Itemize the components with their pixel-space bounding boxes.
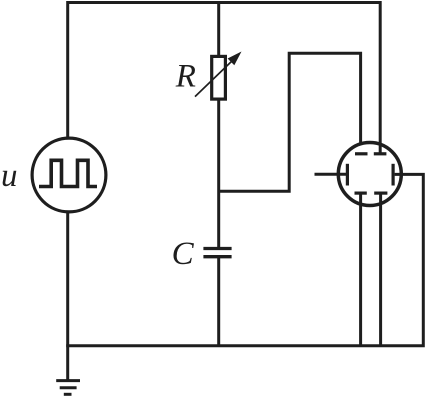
svg-text:C: C xyxy=(172,236,195,272)
svg-text:u: u xyxy=(1,158,18,194)
svg-text:R: R xyxy=(175,58,196,94)
